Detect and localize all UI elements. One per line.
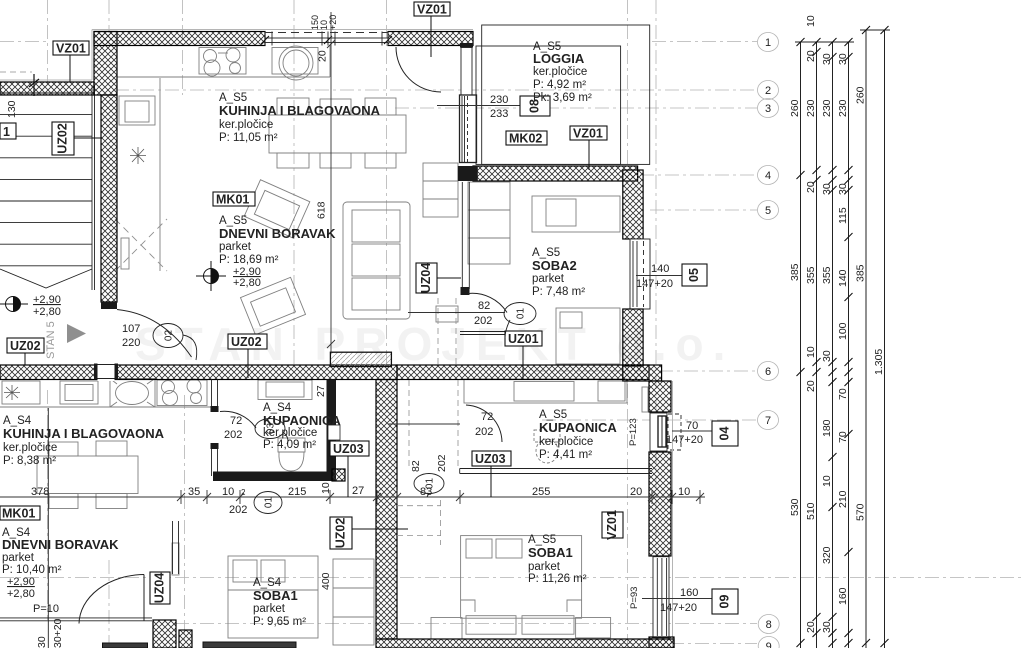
svg-text:355: 355: [805, 266, 817, 284]
dimline L3: [832, 42, 834, 648]
dimline L4: [848, 42, 850, 648]
svg-text:260: 260: [855, 86, 867, 104]
svg-text:115: 115: [837, 207, 849, 224]
label box 04: [712, 421, 738, 446]
tall cabinet S5: [121, 238, 129, 269]
label box 09: [712, 589, 738, 614]
svg-text:P: 4,41 m²: P: 4,41 m²: [539, 449, 592, 461]
svg-text:7: 7: [765, 415, 771, 427]
loggia inner floor: [476, 46, 621, 164]
svg-text:30: 30: [837, 53, 849, 65]
label box 05: [682, 264, 707, 286]
svg-text:UZ01: UZ01: [508, 332, 539, 346]
svg-text:P: 11,05 m²: P: 11,05 m²: [219, 132, 278, 144]
wall loggia-soba2: [473, 166, 638, 181]
MK chimney block S5: [330, 352, 391, 366]
node grid hline mid: [0, 577, 1024, 579]
SOBA2 wardrobe: [468, 182, 510, 264]
gray triangle stairs: [67, 324, 86, 343]
dimline L6: [884, 30, 886, 648]
svg-text:KUHINJA I BLAGOVAONA: KUHINJA I BLAGOVAONA: [3, 426, 165, 441]
svg-text:parket: parket: [528, 561, 561, 573]
bottom dark band bed S4: [203, 642, 296, 648]
wall cap at VZ01: [458, 166, 478, 181]
label UZ02 mid: [228, 334, 267, 349]
svg-text:20: 20: [805, 621, 817, 633]
label MK01 bottom: [0, 506, 40, 520]
armchair 1 living S5: [244, 180, 310, 239]
svg-text:30+20: 30+20: [52, 618, 64, 648]
window soba1 S5: [653, 557, 669, 638]
svg-text:+2,80: +2,80: [7, 588, 35, 600]
svg-text:72: 72: [230, 415, 242, 427]
svg-text:530: 530: [789, 498, 801, 516]
svg-text:202: 202: [224, 429, 242, 441]
label UZ03 bath S5: [472, 451, 511, 466]
svg-text:P=10: P=10: [33, 603, 59, 615]
svg-text:MK02: MK02: [509, 132, 542, 146]
door ellipses: [153, 303, 536, 514]
door soba1 S4 leaf: [143, 575, 145, 622]
door soba2: [468, 293, 507, 312]
node grid vline B: [108, 0, 110, 33]
svg-text:70: 70: [837, 388, 849, 400]
ellipse 01 dim S4: [254, 492, 282, 514]
svg-text:385: 385: [855, 264, 867, 282]
sofa living S5: [343, 202, 410, 319]
svg-text:02: 02: [164, 330, 175, 342]
label MK02: [506, 131, 547, 145]
svg-text:P=123: P=123: [628, 418, 639, 446]
svg-text:27: 27: [315, 385, 327, 397]
svg-text:+20: +20: [328, 15, 338, 30]
node grid hline 6: [534, 370, 757, 372]
svg-text:230: 230: [805, 99, 817, 117]
right strip rotated labels: [789, 15, 885, 633]
svg-text:570: 570: [855, 503, 867, 521]
door bath S4: [220, 411, 256, 428]
ellipse 01 lobby S5: [414, 474, 444, 494]
door bath S5: [466, 405, 502, 442]
label UZ03 bath S4: [330, 441, 369, 456]
partition dnevni-soba1 S4: [173, 521, 179, 574]
svg-text:10: 10: [678, 486, 690, 498]
dashes stair top: [0, 71, 32, 73]
svg-text:147+20: 147+20: [636, 278, 673, 290]
window soba2: [630, 239, 650, 309]
top horizontal connectors: [795, 41, 854, 43]
svg-text:4: 4: [765, 170, 771, 182]
tick at left wall: [29, 74, 39, 96]
dining table S4: [37, 441, 138, 509]
dashes corridor lower: [440, 500, 442, 545]
armchair 2 living S5: [240, 277, 305, 334]
door soba1 S4: [79, 575, 144, 624]
svg-text:+2,80: +2,80: [233, 277, 261, 289]
wall bath S4 bottom thick: [213, 472, 336, 482]
ellipse 03 bath S4: [255, 419, 285, 439]
svg-text:KUPAONICA: KUPAONICA: [539, 420, 617, 435]
svg-text:LOGGIA: LOGGIA: [533, 51, 585, 66]
wall bottom band: [376, 639, 674, 648]
svg-text:09: 09: [718, 595, 732, 609]
node grid vline H: [655, 0, 657, 648]
vanity bath S4: [258, 380, 312, 400]
node grid hline 2: [115, 89, 757, 91]
svg-text:30: 30: [821, 53, 833, 65]
svg-text:MK01: MK01: [2, 507, 35, 521]
svg-text:04: 04: [718, 427, 732, 441]
svg-text:210: 210: [837, 490, 849, 508]
svg-text:10: 10: [821, 475, 833, 487]
wall block bottom S4: [153, 620, 176, 648]
svg-text:6: 6: [765, 366, 771, 378]
svg-text:230: 230: [490, 94, 508, 106]
window top 2: [328, 32, 388, 46]
wall bath S4 left lower: [211, 443, 219, 476]
bottom-left window block: [103, 643, 148, 648]
svg-text:05: 05: [687, 268, 701, 282]
svg-text:VZ01: VZ01: [56, 42, 86, 56]
wall bath S4 corner hatch: [332, 469, 345, 481]
svg-text:202: 202: [229, 504, 247, 516]
node grid vline F: [386, 0, 388, 364]
wall mid corner block: [623, 365, 662, 381]
svg-text:20: 20: [317, 50, 329, 62]
wall stair side: [101, 95, 117, 302]
toilet bath S5: [534, 430, 560, 463]
wall mid band left: [0, 365, 397, 380]
svg-text:3: 3: [765, 103, 771, 115]
svg-text:SOBA2: SOBA2: [532, 258, 577, 273]
node grid hline 7: [542, 419, 757, 421]
svg-text:160: 160: [837, 587, 849, 605]
svg-text:P: 4,09 m²: P: 4,09 m²: [263, 439, 316, 451]
door arc apartment S5 top: [396, 47, 441, 92]
svg-text:10: 10: [222, 486, 234, 498]
window bath S5: [650, 413, 681, 451]
wall top run 2: [388, 32, 473, 46]
svg-text:2: 2: [241, 488, 246, 497]
svg-text:2: 2: [765, 85, 771, 97]
vanity bath S5: [464, 379, 627, 403]
bed SOBA1 S5: [431, 536, 611, 639]
dimline L1: [800, 42, 802, 648]
label UZ01 soba2: [505, 331, 542, 346]
svg-text:385: 385: [789, 263, 801, 281]
niche line soba2: [460, 332, 510, 335]
toilet bath S4: [278, 438, 305, 471]
svg-text:215: 215: [288, 486, 306, 498]
grid lines vertical: [48, 0, 657, 648]
svg-text:320: 320: [821, 546, 833, 564]
svg-text:UZ03: UZ03: [333, 442, 364, 456]
svg-text:P: 10,40 m²: P: 10,40 m²: [2, 564, 62, 576]
node grid hline 5: [650, 209, 757, 211]
svg-text:STAN 5: STAN 5: [45, 321, 57, 359]
svg-text:+2,80: +2,80: [33, 306, 61, 318]
ellipse 02 entry: [153, 324, 183, 348]
svg-text:82: 82: [478, 300, 490, 312]
svg-text:SOBA1: SOBA1: [528, 545, 573, 560]
loggia outline: [482, 25, 650, 164]
svg-text:KUHINJA I BLAGOVAONA: KUHINJA I BLAGOVAONA: [219, 103, 381, 118]
svg-text:UZ04: UZ04: [153, 573, 167, 604]
wall kitchen-loggia jamb: [460, 43, 473, 48]
node grid hline 1: [0, 41, 48, 43]
svg-text:30: 30: [821, 183, 833, 195]
svg-text:10: 10: [320, 482, 332, 494]
svg-text:400: 400: [320, 572, 332, 590]
dim chain labels: [31, 485, 690, 498]
svg-text:10: 10: [805, 15, 817, 27]
svg-text:618: 618: [316, 201, 328, 219]
svg-text:Pk: 3,69 m²: Pk: 3,69 m²: [533, 92, 592, 104]
svg-text:P: 18,69 m²: P: 18,69 m²: [219, 254, 279, 266]
svg-text:220: 220: [122, 337, 140, 349]
svg-text:ker.pločice: ker.pločice: [539, 436, 593, 448]
svg-text:parket: parket: [2, 552, 35, 564]
window top 1: [265, 32, 328, 46]
label UZ02 stairs low: [7, 338, 44, 353]
radiator partition S4: [172, 543, 179, 575]
node grid vline G: [627, 0, 629, 168]
sink S5: [272, 46, 318, 80]
svg-text:202: 202: [436, 454, 448, 472]
svg-text:UZ02: UZ02: [56, 123, 70, 154]
svg-text:parket: parket: [253, 603, 286, 615]
svg-text:30: 30: [821, 350, 833, 362]
svg-text:130: 130: [6, 100, 18, 118]
stairs treads: [0, 85, 95, 290]
svg-text:KUPAONICA: KUPAONICA: [263, 413, 341, 428]
label VZ01 loggia: [570, 126, 607, 140]
svg-text:UZ04: UZ04: [419, 263, 433, 294]
svg-text:SOBA1: SOBA1: [253, 588, 298, 603]
dim ticks right strip: [797, 26, 889, 647]
svg-text:UZ02: UZ02: [10, 339, 41, 353]
svg-text:70: 70: [837, 431, 849, 443]
dim chain y497 line: [0, 490, 705, 504]
svg-text:378: 378: [31, 486, 49, 498]
svg-text:20: 20: [805, 50, 817, 62]
wall stair cap: [101, 302, 117, 309]
svg-text:70: 70: [686, 420, 698, 432]
boiler asterisk S5: [130, 147, 146, 164]
svg-text:27: 27: [352, 485, 364, 497]
svg-text:107: 107: [122, 323, 140, 335]
svg-text:30: 30: [36, 636, 48, 648]
svg-text:DNEVNI BORAVAK: DNEVNI BORAVAK: [2, 537, 119, 552]
label UZ02 rot lower: [330, 517, 352, 549]
svg-text:230: 230: [821, 99, 833, 117]
hall wardrobe S5: [423, 163, 458, 217]
wall bath S4 left upper: [211, 380, 219, 413]
svg-text:202: 202: [475, 426, 493, 438]
stove S5: [199, 48, 246, 77]
svg-text:147+20: 147+20: [666, 434, 703, 446]
svg-text:P: 8,38 m²: P: 8,38 m²: [3, 455, 56, 467]
wall kitchen-loggia: [460, 48, 477, 163]
dimline L2: [816, 42, 818, 648]
dashed X understairs: [115, 219, 167, 271]
kitchen S4 counter: [0, 379, 211, 408]
svg-text:72: 72: [481, 411, 493, 423]
door entry S5 from stairs: [117, 310, 192, 358]
shaft square kitchen S5: [119, 96, 155, 125]
svg-text:140: 140: [837, 269, 849, 287]
node grid vline A: [47, 0, 49, 84]
wardrobe SOBA1 S4: [333, 559, 374, 645]
svg-text:P=93: P=93: [629, 587, 640, 609]
svg-text:35: 35: [188, 486, 200, 498]
svg-text:20: 20: [805, 181, 817, 193]
svg-text:202: 202: [474, 315, 492, 327]
SOBA2 desk: [532, 196, 620, 232]
svg-text:5: 5: [765, 205, 771, 217]
svg-text:P: 7,48 m²: P: 7,48 m²: [532, 286, 585, 298]
svg-text:VZ01: VZ01: [573, 127, 603, 141]
svg-text:82: 82: [410, 460, 422, 472]
svg-text:ker.pločice: ker.pločice: [263, 427, 317, 439]
svg-text:ker.pločice: ker.pločice: [3, 442, 57, 454]
wall right lower segment 1: [649, 381, 671, 412]
svg-text:30: 30: [837, 183, 849, 195]
label box 1 left: [0, 123, 16, 139]
leader curves to ellipses: [183, 320, 510, 497]
svg-text:20: 20: [630, 486, 642, 498]
wall soba2 right upper: [623, 170, 643, 239]
svg-text:255: 255: [532, 486, 550, 498]
ellipse 01 soba2: [504, 303, 536, 325]
wall mid band right: [397, 365, 649, 380]
wall bath S4 right thick: [327, 380, 337, 472]
label VZ01 top: [414, 2, 450, 16]
node grid hline 8: [175, 623, 757, 625]
node grid vline D: [184, 395, 186, 640]
wall soba2 right lower: [623, 309, 643, 366]
label VZ01 left: [53, 41, 89, 55]
svg-text:UZ02: UZ02: [231, 335, 262, 349]
svg-text:230: 230: [837, 99, 849, 117]
svg-text:100: 100: [837, 322, 849, 340]
svg-text:20: 20: [805, 380, 817, 392]
label UZ04 rot hall: [416, 263, 437, 293]
svg-text:9: 9: [766, 641, 772, 648]
svg-text:30: 30: [821, 621, 833, 633]
svg-text:10: 10: [805, 346, 817, 358]
svg-text:ker.pločice: ker.pločice: [219, 119, 273, 131]
wall bath S4 notch: [328, 425, 340, 440]
label VZ01 rot soba1 S5: [602, 512, 623, 538]
svg-text:parket: parket: [219, 241, 252, 253]
svg-text:01: 01: [264, 497, 275, 509]
label box 08: [520, 96, 550, 116]
svg-text:P: 11,26 m²: P: 11,26 m²: [528, 573, 587, 585]
svg-text:VZ01: VZ01: [417, 3, 447, 17]
svg-text:510: 510: [805, 502, 817, 520]
wall top jog vertical: [94, 32, 117, 96]
svg-text:UZ02: UZ02: [334, 518, 348, 549]
bed SOBA1 S4: [228, 556, 318, 638]
svg-text:233: 233: [490, 108, 508, 120]
bath S5 bottom partition: [460, 469, 652, 474]
dashes lobby bath S5: [408, 380, 410, 468]
wall big vertical S5 upper: [376, 380, 397, 640]
svg-text:1: 1: [3, 125, 10, 139]
wall right lower segment 2: [649, 452, 671, 556]
svg-text:DNEVNI BORAVAK: DNEVNI BORAVAK: [219, 226, 336, 241]
label UZ04 rot S4: [150, 572, 170, 604]
window top dashed sill: [265, 32, 388, 34]
svg-text:1: 1: [765, 37, 771, 49]
dashes hall S5: [437, 298, 439, 364]
svg-text:ker.pločice: ker.pločice: [533, 66, 587, 78]
svg-text:STAN PROJEKT d.o.: STAN PROJEKT d.o.: [135, 318, 734, 370]
dining table S5: [269, 98, 406, 168]
washbasin right bath S5: [598, 381, 625, 401]
svg-text:+2,90: +2,90: [7, 576, 35, 588]
svg-text:355: 355: [821, 266, 833, 284]
dimline L5: [865, 30, 867, 648]
level marker S5: [196, 261, 226, 291]
bottom-left edge lines: [0, 408, 152, 648]
svg-text:VZ01: VZ01: [605, 510, 619, 540]
svg-text:+2,90: +2,90: [33, 294, 61, 306]
wall top run 1: [94, 32, 265, 46]
svg-text:01: 01: [425, 478, 436, 490]
label MK01: [213, 192, 255, 206]
kitchen S5 counter top run: [117, 46, 330, 272]
wall block bottom S4 b: [179, 630, 192, 648]
svg-text:140: 140: [651, 263, 669, 275]
svg-text:UZ03: UZ03: [475, 452, 506, 466]
stair arrow: [0, 269, 92, 288]
svg-text:160: 160: [680, 587, 698, 599]
svg-text:01: 01: [516, 308, 527, 320]
grid bubbles 1-9: [758, 33, 780, 648]
svg-text:P: 4,92 m²: P: 4,92 m²: [533, 79, 586, 91]
node grid hline 4: [640, 174, 757, 176]
svg-text:147+20: 147+20: [660, 602, 697, 614]
hall small squares: [436, 306, 458, 322]
label UZ02 rot stairs: [52, 122, 74, 155]
svg-text:8: 8: [766, 619, 772, 631]
node grid vline E: [293, 0, 295, 365]
wall top-left band: [0, 82, 94, 95]
outer stucco gray lines: [0, 30, 473, 81]
svg-text:P: 9,65 m²: P: 9,65 m²: [253, 616, 306, 628]
corridor dashed projections: [0, 72, 458, 545]
node grid vline C: [182, 0, 184, 95]
svg-text:MK01: MK01: [216, 193, 249, 207]
dim 618 vertical line: [327, 12, 335, 352]
wall soba2 left: [461, 182, 470, 295]
node grid hline 9: [620, 643, 757, 645]
boiler asterisk S4: [4, 385, 20, 400]
SOBA2 bed: [556, 308, 620, 364]
level marker stairs: [0, 297, 28, 312]
svg-text:180: 180: [821, 419, 833, 437]
svg-text:260: 260: [789, 99, 801, 117]
wall right bottom corner: [649, 637, 674, 648]
svg-text:parket: parket: [532, 273, 565, 285]
door opening S4 entry: [98, 364, 115, 382]
svg-text:1.305: 1.305: [873, 349, 885, 375]
node grid hline 3: [395, 107, 757, 109]
